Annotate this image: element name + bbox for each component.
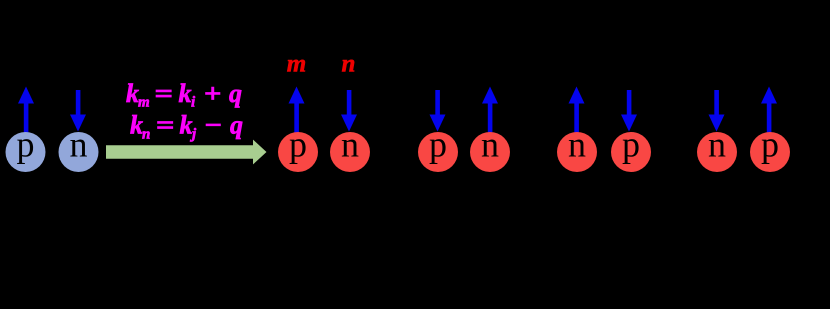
spin-up arrow pair4 proton — [761, 87, 777, 134]
svg-text:q: q — [229, 79, 242, 108]
svg-text:q: q — [230, 111, 243, 140]
svg-text:p: p — [289, 125, 307, 165]
spin-down arrow over left neutron — [70, 90, 86, 132]
spin-down arrow pair2 proton — [430, 90, 446, 132]
equation k_m = k_i + q — [126, 79, 242, 111]
svg-text:p: p — [622, 125, 640, 165]
equation k_n = k_j - q — [130, 111, 243, 143]
spin-up arrow pair3 neutron — [569, 87, 585, 134]
neutron circle pair3 — [557, 125, 597, 173]
svg-text:m: m — [287, 51, 306, 78]
neutron circle (blue pair) — [59, 125, 99, 173]
svg-text:+: + — [204, 79, 222, 108]
svg-text:j: j — [190, 127, 197, 143]
neutron circle pair2 — [470, 125, 510, 173]
spin-down arrow pair4 neutron — [709, 90, 725, 132]
proton circle pair4 — [750, 125, 790, 173]
svg-text:n: n — [142, 127, 150, 143]
svg-text:p: p — [761, 125, 779, 165]
green reaction arrow — [106, 140, 267, 165]
svg-text:p: p — [17, 125, 35, 165]
svg-text:−: − — [205, 111, 223, 140]
proton circle pair1 — [278, 125, 318, 173]
svg-text:n: n — [568, 125, 586, 165]
spin-down arrow pair3 proton — [621, 90, 637, 132]
svg-text:n: n — [708, 125, 726, 165]
neutron circle pair1 — [330, 125, 370, 173]
svg-text:n: n — [342, 51, 356, 78]
spin-down arrow pair1 neutron — [341, 90, 357, 132]
svg-text:k: k — [179, 79, 192, 108]
svg-text:m: m — [138, 95, 150, 111]
spin-up arrow over left proton — [18, 87, 34, 134]
proton circle pair2 — [418, 125, 458, 173]
proton circle pair3 — [611, 125, 651, 173]
svg-text:n: n — [70, 125, 88, 165]
svg-text:k: k — [180, 111, 193, 140]
svg-text:=: = — [156, 111, 175, 140]
spin-up arrow pair2 neutron — [482, 87, 498, 134]
svg-text:n: n — [341, 125, 359, 165]
svg-text:=: = — [155, 79, 174, 108]
neutron circle pair4 — [697, 125, 737, 173]
svg-text:n: n — [481, 125, 499, 165]
svg-text:p: p — [429, 125, 447, 165]
proton circle (blue pair) — [6, 125, 46, 173]
spin-up arrow pair1 proton — [289, 87, 305, 134]
